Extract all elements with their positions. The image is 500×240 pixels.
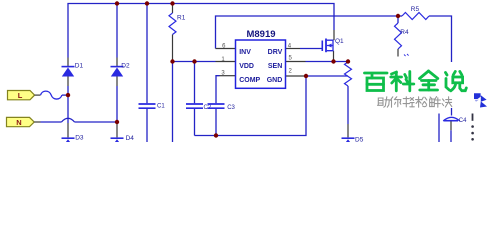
svg-text:R5: R5 [411, 6, 420, 13]
wire C1 column [146, 4, 148, 143]
capacitor C3 [208, 104, 236, 111]
diode D1 pins [67, 58, 69, 87]
wire C3 bottom leg [215, 109, 217, 136]
svg-text:D3: D3 [75, 134, 84, 141]
svg-text:C3: C3 [227, 105, 235, 111]
wire D2 column mid [116, 86, 118, 123]
svg-text:D1: D1 [75, 62, 84, 69]
svg-text:D5: D5 [355, 136, 364, 142]
wire VDD horizontal to IC pin 1 [173, 61, 216, 63]
svg-text:D2: D2 [121, 62, 130, 69]
diode D4 [111, 135, 135, 147]
resistor R5 [398, 6, 429, 20]
L pin stub [35, 94, 41, 96]
transistor Q1 [322, 30, 344, 62]
wire D1 column mid [67, 86, 69, 123]
resistor R4 [395, 16, 409, 57]
diode D5 [342, 136, 364, 147]
diode D4 pin [116, 123, 118, 137]
svg-text:C4: C4 [459, 118, 467, 124]
junction GND branch [304, 74, 308, 78]
resistor R1 [169, 4, 186, 62]
svg-text:N: N [16, 118, 21, 127]
svg-text:INV: INV [239, 49, 251, 56]
capacitor C2 [186, 104, 212, 111]
wire GND to R3 [306, 75, 348, 77]
logo icon [474, 93, 487, 107]
svg-text:D4: D4 [126, 135, 135, 142]
wire output rail right [429, 16, 452, 63]
junction feedback node at R4 R5 [396, 14, 400, 18]
junction top wire at R1 [170, 1, 174, 5]
junction SEN at Q1 source [331, 59, 335, 63]
svg-text:L: L [18, 91, 23, 100]
svg-text:DRV: DRV [268, 49, 283, 56]
resistor R3 current sense [345, 62, 352, 125]
dashed marker line [471, 114, 474, 141]
pin 3 stub [220, 75, 236, 77]
pin 6 stub [216, 48, 236, 50]
diode D2 pins [116, 58, 118, 87]
diode D3 [62, 134, 84, 147]
diode D3 pin [67, 123, 69, 137]
wire INV feedback loop [216, 16, 399, 49]
wire SEN line [306, 61, 349, 63]
svg-text:C1: C1 [157, 103, 165, 109]
pin 1 stub [216, 61, 236, 63]
svg-text:R4: R4 [400, 29, 409, 36]
wire COMP to C3 [216, 76, 220, 104]
junction VDD at C2 [192, 59, 196, 63]
junction SEN at R3 [346, 59, 350, 63]
svg-text:M8919: M8919 [246, 29, 275, 40]
wire L to D1 column [62, 94, 68, 96]
wire C2 column [194, 62, 196, 136]
junction L at D1 column [66, 93, 70, 97]
wire N with hop over D1 column [41, 118, 118, 122]
wire ground bottom bus [195, 76, 307, 136]
wire output column above C4 [451, 108, 453, 116]
N pin stub [34, 121, 40, 123]
wire top bus from D1 column to Q1 drain [68, 4, 334, 58]
pin 4 stub [286, 48, 301, 50]
connector L [8, 91, 35, 101]
wire secondary left leg [438, 114, 440, 143]
wire DRV to Q1 gate [300, 48, 322, 50]
wire VDD rail column below R1 [172, 62, 174, 143]
svg-text:VDD: VDD [239, 63, 254, 70]
watermark background panel [356, 62, 492, 108]
connector N [7, 117, 35, 126]
junction top wire at D2 [115, 1, 119, 5]
watermark title 百科全说 [365, 71, 467, 91]
svg-text:Q1: Q1 [335, 38, 344, 45]
svg-text:COMP: COMP [239, 77, 260, 84]
svg-text:SEN: SEN [268, 63, 282, 70]
pin 5 stub [286, 61, 306, 63]
svg-text:GND: GND [267, 77, 283, 84]
capacitor C4 polarized [443, 117, 467, 142]
capacitor C1 [139, 103, 166, 109]
junction bottom bus at C3 [214, 133, 218, 137]
diode D1 [62, 62, 84, 76]
junction VDD at R1 column [170, 59, 174, 63]
fuse F1 squiggle [41, 91, 62, 99]
wire D2 column top leg [116, 4, 118, 58]
junction N at D2 column [115, 120, 119, 124]
diode D5 pin [347, 124, 349, 137]
op-amp U1 M8919 box [236, 29, 286, 88]
svg-text:R1: R1 [177, 15, 186, 22]
watermark subtitle 助你轻松解决 [378, 97, 452, 108]
diode D2 [111, 62, 130, 76]
pin 2 stub [286, 75, 307, 77]
junction top wire at C1 [145, 1, 149, 5]
